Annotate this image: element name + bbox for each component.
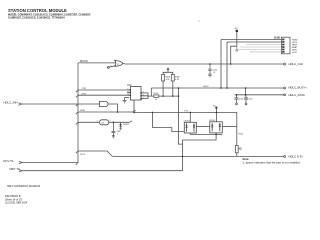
svg-text:.1: .1	[117, 134, 119, 136]
and-gate U9C	[100, 101, 109, 106]
wire buffer output	[109, 121, 132, 123]
wire connector loop pin1	[221, 40, 281, 89]
capacitor C114	[208, 64, 211, 77]
wire HDLC_INH	[22, 103, 79, 105]
svg-text:HDLC_CLK: HDLC_CLK	[289, 62, 304, 66]
wire buffer input	[78, 121, 99, 123]
buffer U11	[99, 120, 108, 125]
svg-text:MUXD: MUXD	[80, 59, 88, 63]
wire riser x178	[178, 88, 182, 144]
wire line1 left	[22, 162, 78, 164]
bus tick marks	[76, 90, 78, 165]
wire busy-data link	[245, 88, 247, 95]
wire HDLC_CLK line	[123, 63, 284, 66]
node MUXD label	[80, 59, 88, 63]
diode bridge CR102	[210, 122, 223, 133]
svg-text:12: 12	[127, 91, 129, 93]
svg-text:RXD: RXD	[81, 110, 86, 112]
note text	[243, 157, 301, 165]
svg-text:STATION CONTROL MODULE: STATION CONTROL MODULE	[8, 8, 67, 13]
wire bridge1 feed	[153, 112, 185, 131]
wire connector loop pin2	[227, 42, 281, 88]
svg-text:HDLC_INH: HDLC_INH	[4, 100, 18, 104]
wire bridge1-bridge2 link	[196, 126, 210, 128]
wire bridge2 bottom	[215, 133, 217, 135]
capacitor C106	[112, 122, 116, 136]
wire bottom bus	[183, 135, 223, 171]
svg-text:HDLC SCHEMATIC DIAGRAM: HDLC SCHEMATIC DIAGRAM	[7, 185, 40, 188]
svg-text:RXD2: RXD2	[82, 93, 87, 95]
resistor R109	[171, 75, 174, 82]
svg-text:.01: .01	[213, 72, 216, 74]
wire IC bottom pin to TXD	[133, 100, 135, 112]
node stub circle	[236, 46, 238, 49]
svg-text:U10: U10	[127, 84, 132, 87]
svg-text:1: 1	[110, 120, 111, 122]
wire bridge2 top	[215, 112, 217, 121]
svg-text:JL/1/2001 SBR-0414: JL/1/2001 SBR-0414	[5, 202, 28, 205]
node ignore circle	[240, 148, 242, 150]
pin numbers U10	[127, 89, 144, 100]
capacitor C116	[234, 95, 238, 105]
capacitor C117	[244, 95, 248, 105]
wire IC pin wires left	[78, 90, 129, 95]
svg-text:TXD: TXD	[184, 110, 189, 112]
wire RCV tap	[78, 151, 113, 156]
node HDLC_INH input label	[4, 100, 18, 104]
wire R109 bottom	[172, 81, 174, 96]
svg-text:H+5V: H+5V	[292, 52, 298, 54]
resistor R142	[235, 146, 238, 153]
svg-text:RCV: RCV	[81, 154, 86, 156]
junction dots	[113, 63, 247, 157]
svg-text:13: 13	[127, 94, 129, 96]
svg-text:XMIT TA: XMIT TA	[9, 167, 20, 171]
svg-text:C116: C116	[239, 98, 243, 100]
ground IC	[123, 100, 127, 102]
test point E2	[235, 28, 238, 32]
svg-text:J10B: J10B	[274, 37, 280, 40]
svg-text:1. Ignore indicates that the p: 1. Ignore indicates that the part is not…	[243, 161, 301, 165]
node HDLC_DATA	[284, 94, 286, 96]
node HDLC_CLK	[284, 63, 286, 65]
power +5V arrow	[167, 67, 170, 70]
wire line2	[22, 170, 183, 172]
svg-text:4.7K: 4.7K	[165, 79, 170, 81]
wire pullup tops	[163, 70, 173, 75]
connector J10B	[281, 37, 290, 54]
wire R108 bottom	[162, 81, 164, 96]
svg-text:RCV TA: RCV TA	[4, 159, 14, 163]
wire TXD end down / R142 chain	[236, 112, 238, 145]
wire E2 down	[231, 32, 237, 64]
svg-text:CR105: CR105	[123, 124, 129, 126]
svg-text:U9: U9	[102, 122, 104, 124]
diode bridge CR101	[184, 122, 196, 133]
wire IC pin4 to ground	[125, 98, 130, 101]
connector chevron HDLC_INH	[19, 103, 22, 105]
svg-text:1K: 1K	[155, 99, 158, 101]
wire bridge2 right lead	[222, 126, 237, 128]
test point E4	[215, 107, 217, 109]
wire gate input	[78, 103, 100, 105]
wire IC right pins to R113	[142, 93, 154, 99]
svg-text:4.7K: 4.7K	[175, 79, 180, 81]
svg-text:HDLC D IN: HDLC D IN	[289, 155, 303, 159]
op-amp U9B OR gate	[107, 61, 123, 69]
wire R113 out	[159, 95, 179, 97]
wire TXD line	[134, 111, 237, 113]
wire HDLC_DATA line	[235, 94, 284, 96]
node HDLC_BUSY+	[284, 87, 286, 89]
ground C106	[112, 136, 115, 138]
svg-text:R142: R142	[238, 134, 243, 136]
wire bridge1 top	[189, 112, 191, 122]
footer text	[5, 185, 40, 205]
title block	[8, 8, 91, 19]
svg-text:CLWB0187, CLW181CS, CLW180CS,: CLWB0187, CLW181CS, CLW180CS, T77AW2HU	[8, 16, 65, 19]
svg-text:CR101: CR101	[184, 121, 191, 123]
node label BUSY	[204, 86, 210, 88]
wire gate output	[108, 104, 117, 112]
resistor R113	[154, 95, 159, 97]
wire BUSY riser	[150, 88, 152, 96]
svg-text:HDLC_BUSY+: HDLC_BUSY+	[289, 86, 308, 90]
wire vertical bus	[77, 63, 79, 163]
wire RXD line	[78, 110, 136, 112]
IC U10 left pin nubs	[129, 89, 142, 99]
svg-text:HDLC_DATA: HDLC_DATA	[289, 93, 305, 97]
IC U10	[131, 86, 142, 100]
svg-text:CTS2: CTS2	[82, 88, 87, 90]
resistor R108	[162, 75, 165, 82]
svg-text:C117: C117	[248, 98, 252, 100]
wire HDLC_BUSY+ line	[151, 87, 283, 89]
wire line1 HDLC D IN	[113, 155, 284, 157]
wire MUXD to gate	[78, 62, 115, 64]
diode CR105	[119, 122, 122, 129]
wire ignored gray lines to connector	[237, 45, 281, 52]
svg-text:CR102: CR102	[209, 120, 216, 122]
wire bridge1 bottom	[189, 133, 191, 135]
